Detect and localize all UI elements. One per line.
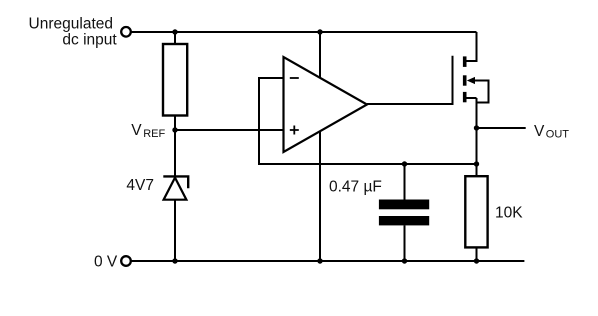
ground terminal circle 0V [121,256,131,266]
input terminal circle [121,27,131,37]
node VREF label [131,122,165,140]
svg-text:0 V: 0 V [94,253,118,270]
junction: VREF node [172,127,177,132]
wire: feedback loop to inverting input [259,78,477,164]
zener diode D1 [163,130,188,261]
svg-text:4V7: 4V7 [126,177,154,194]
wire: VREF to op-amp non-inverting input [175,129,284,131]
junction: bottom rail / R2 [474,258,479,263]
junction: top rail / op-amp supply [317,29,322,34]
svg-text:OUT: OUT [546,128,570,140]
junction: top rail / R1 [172,29,177,34]
wire: op-amp supply vertical [319,32,321,261]
svg-text:0.47 µF: 0.47 µF [329,178,382,195]
wire: top unregulated rail [131,31,477,33]
junction: bottom rail / zener [172,258,177,263]
svg-text:REF: REF [143,128,165,140]
svg-text:V: V [534,123,545,140]
svg-text:Unregulated: Unregulated [29,15,113,32]
label 10K [495,205,523,222]
wire: VOUT stub [477,127,526,129]
label 4V7 [126,177,154,194]
wire: 0V bottom rail [131,260,525,262]
resistor R1 [163,32,187,130]
op-amp U1 [284,57,368,152]
capacitor C1 [379,164,429,261]
junction: VOUT tap [474,125,479,130]
transistor Q1 (n-channel MOSFET) [465,32,489,103]
svg-text:10K: 10K [495,205,523,222]
junction: bottom rail / op-amp supply [317,258,322,263]
resistor R2 [465,176,487,261]
junction: feedback line / capacitor top [402,161,407,166]
svg-text:V: V [131,122,142,139]
label 0 V [94,253,118,270]
label: Unregulated dc input [29,15,118,48]
wire: source down to output node and 10K [476,98,478,176]
junction: bottom rail / capacitor [402,258,407,263]
junction: feedback line / output node [474,161,479,166]
label VOUT [534,123,569,140]
svg-text:dc input: dc input [62,31,117,48]
wire: op-amp output to gate [367,56,453,104]
label 0.47 uF [329,178,382,195]
